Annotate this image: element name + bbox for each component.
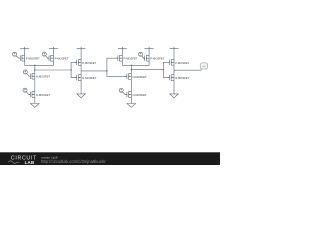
wire nand1 out to inverter1 xyxy=(35,69,71,71)
wire M10 to ground xyxy=(130,97,132,103)
source V1 xyxy=(13,52,17,56)
wire V3 to M3 gate xyxy=(27,74,31,77)
wire inverter2 out to flag xyxy=(174,69,202,70)
component labels xyxy=(26,57,190,97)
wire VDD5 to M8 xyxy=(148,49,150,56)
wire VDD4 to M7 xyxy=(121,49,123,56)
transistor M3 N-MOSFET xyxy=(29,73,35,79)
node nand2 out T xyxy=(131,65,132,66)
wire VDD3 to M5 xyxy=(80,49,82,60)
svg-text:P-MOSFET: P-MOSFET xyxy=(82,61,96,65)
wire inverter2 output vertical xyxy=(173,65,175,75)
transistor M7 P-MOSFET xyxy=(116,55,122,61)
vdd rail VDD2 xyxy=(49,47,58,49)
wire M12 to ground xyxy=(173,81,175,94)
wire inverter1 output vertical xyxy=(80,65,82,74)
wire nand2 out to inverter2 xyxy=(131,69,163,71)
wire M9 to M10 xyxy=(130,79,132,91)
wire nand1 drain bus xyxy=(25,64,54,66)
wire M4 to ground xyxy=(34,97,36,103)
node nand1 out T xyxy=(34,65,35,66)
wire VDD2 to M2 xyxy=(52,49,54,56)
wire V2 to M2 gate xyxy=(46,56,49,59)
svg-text:P-MOSFET: P-MOSFET xyxy=(55,57,69,61)
svg-text:P-MOSFET: P-MOSFET xyxy=(150,57,164,61)
svg-text:LAB: LAB xyxy=(25,160,35,165)
node nand2 in xyxy=(106,70,107,71)
vdd rail VDD4 xyxy=(118,47,127,49)
wire nand1 out vertical xyxy=(34,65,36,73)
transistor M10 N-MOSFET xyxy=(125,91,131,97)
ground GND4 xyxy=(170,94,179,98)
transistor M1 P-MOSFET xyxy=(18,55,24,61)
node inverter1 in xyxy=(70,69,71,70)
ground GND3 xyxy=(127,104,136,108)
wire V4 to M4 gate xyxy=(26,92,30,95)
wire inverter2 gate bus xyxy=(163,62,169,77)
footer bar xyxy=(0,152,220,165)
circuitlab logo xyxy=(8,156,37,165)
wire M8 drain down xyxy=(148,61,150,65)
node nand2 tap xyxy=(131,69,132,70)
wire nand2 input bus xyxy=(107,58,127,76)
transistor M8 P-MOSFET xyxy=(143,55,149,61)
source V2 xyxy=(42,52,46,56)
wire M1 drain down xyxy=(24,61,26,65)
ground GND2 xyxy=(77,94,86,98)
wire inverter1 gate bus xyxy=(71,62,77,77)
svg-text:N-MOSFET: N-MOSFET xyxy=(36,75,50,79)
wire VDD6 to M11 xyxy=(173,49,175,60)
vdd rail VDD5 xyxy=(145,47,154,49)
transistor M6 N-MOSFET (middle inverter) xyxy=(75,75,81,81)
wire inverter1 out to nand2 xyxy=(81,70,107,72)
wire VDD1 to M1 xyxy=(24,49,26,56)
wire M7 drain down xyxy=(121,61,123,65)
source V4 xyxy=(23,88,27,92)
wire V1 to M1 gate xyxy=(16,56,20,58)
vdd rail VDD1 xyxy=(20,47,29,49)
transistor M11 P-MOSFET (output inverter) xyxy=(168,59,174,65)
ground GND1 xyxy=(31,104,40,108)
svg-text:P-MOSFET: P-MOSFET xyxy=(26,57,40,61)
wire V6 to M8 gate xyxy=(142,56,145,58)
wire M3 to M4 xyxy=(34,79,36,91)
node inverter2 in xyxy=(163,69,164,70)
svg-text:http://circuitlab.com/c/3mjna9: http://circuitlab.com/c/3mjna9kuebr xyxy=(41,159,106,164)
svg-text:P-MOSFET: P-MOSFET xyxy=(124,57,138,61)
transistor M4 N-MOSFET xyxy=(29,91,35,97)
wire nand2 drain bus xyxy=(122,64,149,66)
source V3 xyxy=(23,70,27,74)
wire V5 to M10 gate xyxy=(123,92,127,95)
wire nand2 out vertical xyxy=(130,65,132,73)
svg-text:N-MOSFET: N-MOSFET xyxy=(133,93,147,97)
wire M6 to ground xyxy=(80,81,82,94)
transistor M9 N-MOSFET xyxy=(125,73,131,79)
svg-text:N-MOSFET: N-MOSFET xyxy=(133,75,147,79)
vdd rail VDD6 (output inverter) xyxy=(170,47,179,49)
svg-text:N-MOSFET: N-MOSFET xyxy=(36,93,50,97)
source V5 xyxy=(119,88,123,92)
transistor M2 P-MOSFET xyxy=(47,55,53,61)
wire M2 drain down xyxy=(52,61,54,65)
svg-text:P-MOSFET: P-MOSFET xyxy=(175,61,189,65)
node nand1 tap xyxy=(34,69,35,70)
vdd rail VDD3 (middle inverter) xyxy=(77,47,86,49)
transistor M5 P-MOSFET (middle inverter) xyxy=(75,59,81,65)
node flag out xyxy=(200,63,208,69)
svg-text:N-MOSFET: N-MOSFET xyxy=(82,76,96,80)
transistor M12 N-MOSFET (output inverter) xyxy=(168,75,174,81)
svg-text:N-MOSFET: N-MOSFET xyxy=(175,76,189,80)
source V6 xyxy=(138,52,142,56)
